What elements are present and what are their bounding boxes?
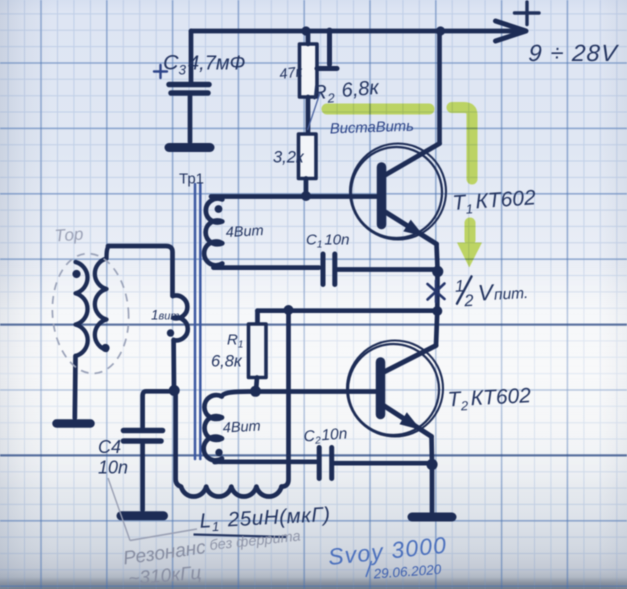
svg-text:29.06.2020: 29.06.2020 bbox=[372, 562, 442, 582]
svg-text:3,2к: 3,2к bbox=[273, 149, 305, 167]
junction T2 emitter node bbox=[426, 459, 437, 470]
supply arrowhead bbox=[496, 21, 527, 41]
resistor 3.2k body bbox=[299, 134, 317, 179]
wire C1 to mid node bbox=[337, 267, 434, 272]
toroid dot bottom bbox=[101, 344, 109, 352]
resistor 47k body bbox=[300, 44, 318, 97]
plus sign C3 bbox=[154, 65, 167, 78]
junction C4 node bbox=[169, 385, 180, 396]
wire C3 drop from rail bbox=[189, 31, 194, 82]
svg-text:Тор: Тор bbox=[54, 225, 84, 246]
wire R1 top lead bbox=[255, 311, 260, 324]
highlighter horizontal bar bbox=[327, 104, 429, 115]
svg-text:L1 25uH(мкГ): L1 25uH(мкГ) bbox=[199, 503, 331, 535]
junction R1 rail node bbox=[432, 306, 442, 316]
pencil ellipse around toroid bbox=[48, 251, 132, 376]
junction rail-47k bbox=[301, 26, 310, 35]
wire top supply rail bbox=[191, 29, 521, 34]
wire 47k to 3.2k bbox=[306, 97, 311, 134]
highlighter corner and vertical bbox=[452, 108, 472, 180]
transistor T2 emitter lead bbox=[382, 405, 432, 437]
junction resonant tap bbox=[284, 305, 294, 315]
svg-text:6,8к: 6,8к bbox=[211, 353, 243, 371]
transistor T2 collector lead bbox=[382, 346, 436, 374]
wire winding to C1 bbox=[214, 265, 320, 270]
svg-text:C34,7мФ: C34,7мФ bbox=[163, 51, 246, 78]
capacitor C4 bbox=[124, 431, 163, 442]
wire mid node vertical bbox=[435, 268, 440, 311]
junction rail-collector bbox=[436, 26, 445, 35]
wire T2 base bbox=[256, 389, 376, 394]
wire node to C4 bbox=[143, 391, 174, 427]
svg-text:47к: 47к bbox=[279, 64, 305, 83]
svg-text:4Вит: 4Вит bbox=[225, 223, 264, 241]
wire R1 bottom lead bbox=[256, 378, 257, 392]
emphasized ruled lines bbox=[0, 325, 627, 456]
transistor T1 collector lead bbox=[384, 144, 440, 177]
stub with plate on rail bbox=[317, 31, 337, 69]
junction R1 base node bbox=[250, 386, 261, 397]
svg-text:ВистаВить: ВистаВить bbox=[330, 119, 415, 138]
photo sheen band bbox=[0, 262, 627, 497]
resistor R1 body bbox=[249, 324, 267, 378]
ground below T2 bbox=[412, 513, 452, 522]
winding 1 turn feedback bbox=[173, 296, 188, 341]
wire 3.2k to base node bbox=[304, 179, 309, 197]
wire winding to C2 bbox=[219, 459, 316, 464]
transformer Tp1 core bbox=[195, 184, 200, 459]
inductor L1 bbox=[176, 393, 282, 497]
svg-text:R2 6,8к: R2 6,8к bbox=[312, 77, 382, 107]
svg-text:2: 2 bbox=[463, 292, 474, 311]
wire C3 to ground bbox=[188, 95, 193, 142]
svg-text:10n: 10n bbox=[98, 458, 128, 478]
wire C2 to emitter node bbox=[334, 461, 429, 466]
transistor T2 base bar bbox=[376, 362, 386, 415]
wire rail to T1 collector bbox=[437, 31, 442, 144]
winding dot lower bbox=[215, 449, 222, 456]
asterisk half-V node bbox=[428, 281, 445, 303]
transistor T2 circle bbox=[348, 344, 439, 435]
svg-text:Т1КТ602: Т1КТ602 bbox=[452, 186, 537, 217]
winding dot upper bbox=[215, 205, 223, 213]
winding dot feedback bbox=[167, 329, 174, 336]
label half supply bbox=[455, 273, 529, 310]
capacitor C2 bbox=[319, 448, 332, 479]
pencil pointer lines to resonance note bbox=[108, 478, 197, 541]
wire T1 base from transformer bbox=[211, 194, 377, 199]
junction base node T1 bbox=[301, 191, 311, 201]
wire C4 to ground bbox=[140, 444, 145, 511]
winding 4 turns lower bbox=[204, 391, 252, 462]
winding 4 turns upper bbox=[204, 197, 222, 268]
junction half-V node bbox=[432, 266, 443, 277]
capacitor C1 bbox=[323, 254, 335, 285]
tick before date bbox=[366, 561, 372, 577]
junction rail-stub bbox=[326, 28, 333, 35]
transistor T1 base bar bbox=[377, 167, 387, 225]
pointer line R2 label bbox=[308, 93, 321, 130]
wire toroid to ground bbox=[72, 356, 77, 418]
wire T2 collector vertical bbox=[436, 311, 437, 346]
toroid dot top bbox=[72, 270, 80, 278]
transistor T1 circle bbox=[351, 147, 442, 238]
svg-text:C4: C4 bbox=[98, 437, 121, 457]
wire rail to 47k bbox=[306, 31, 311, 44]
svg-text:Тр1: Тр1 bbox=[179, 171, 204, 188]
svg-text:4Вит: 4Вит bbox=[222, 419, 261, 437]
svg-text:9 ÷ 28V: 9 ÷ 28V bbox=[528, 40, 620, 66]
plus sign supply bbox=[515, 2, 540, 25]
wire R1 top rail bbox=[258, 308, 436, 313]
highlighter arrowhead bbox=[457, 243, 482, 268]
highlighter lower vertical bbox=[465, 223, 476, 240]
toroid winding left bbox=[76, 262, 88, 356]
ground below C3 bbox=[169, 143, 210, 152]
wire T2 emitter down bbox=[429, 437, 434, 464]
svg-text:1вит: 1вит bbox=[151, 308, 180, 323]
wire toroid top link bbox=[108, 246, 173, 296]
T1 emitter arrow bbox=[403, 220, 424, 237]
wire 1-turn to bottom node bbox=[171, 340, 176, 390]
underline L1 value bbox=[194, 535, 287, 538]
toroid winding right bbox=[95, 246, 109, 350]
ground below C4 bbox=[121, 511, 164, 520]
wire T1 emitter down to mid node bbox=[437, 244, 438, 268]
wire T2 emitter to ground bbox=[430, 465, 435, 516]
wire resonant tap vertical bbox=[282, 311, 289, 487]
svg-text:C110n: C110n bbox=[306, 232, 349, 251]
transistor T1 emitter lead bbox=[383, 211, 437, 245]
ground below toroid bbox=[57, 419, 91, 428]
T2 emitter arrow bbox=[400, 412, 422, 430]
capacitor C3 bbox=[169, 85, 209, 94]
